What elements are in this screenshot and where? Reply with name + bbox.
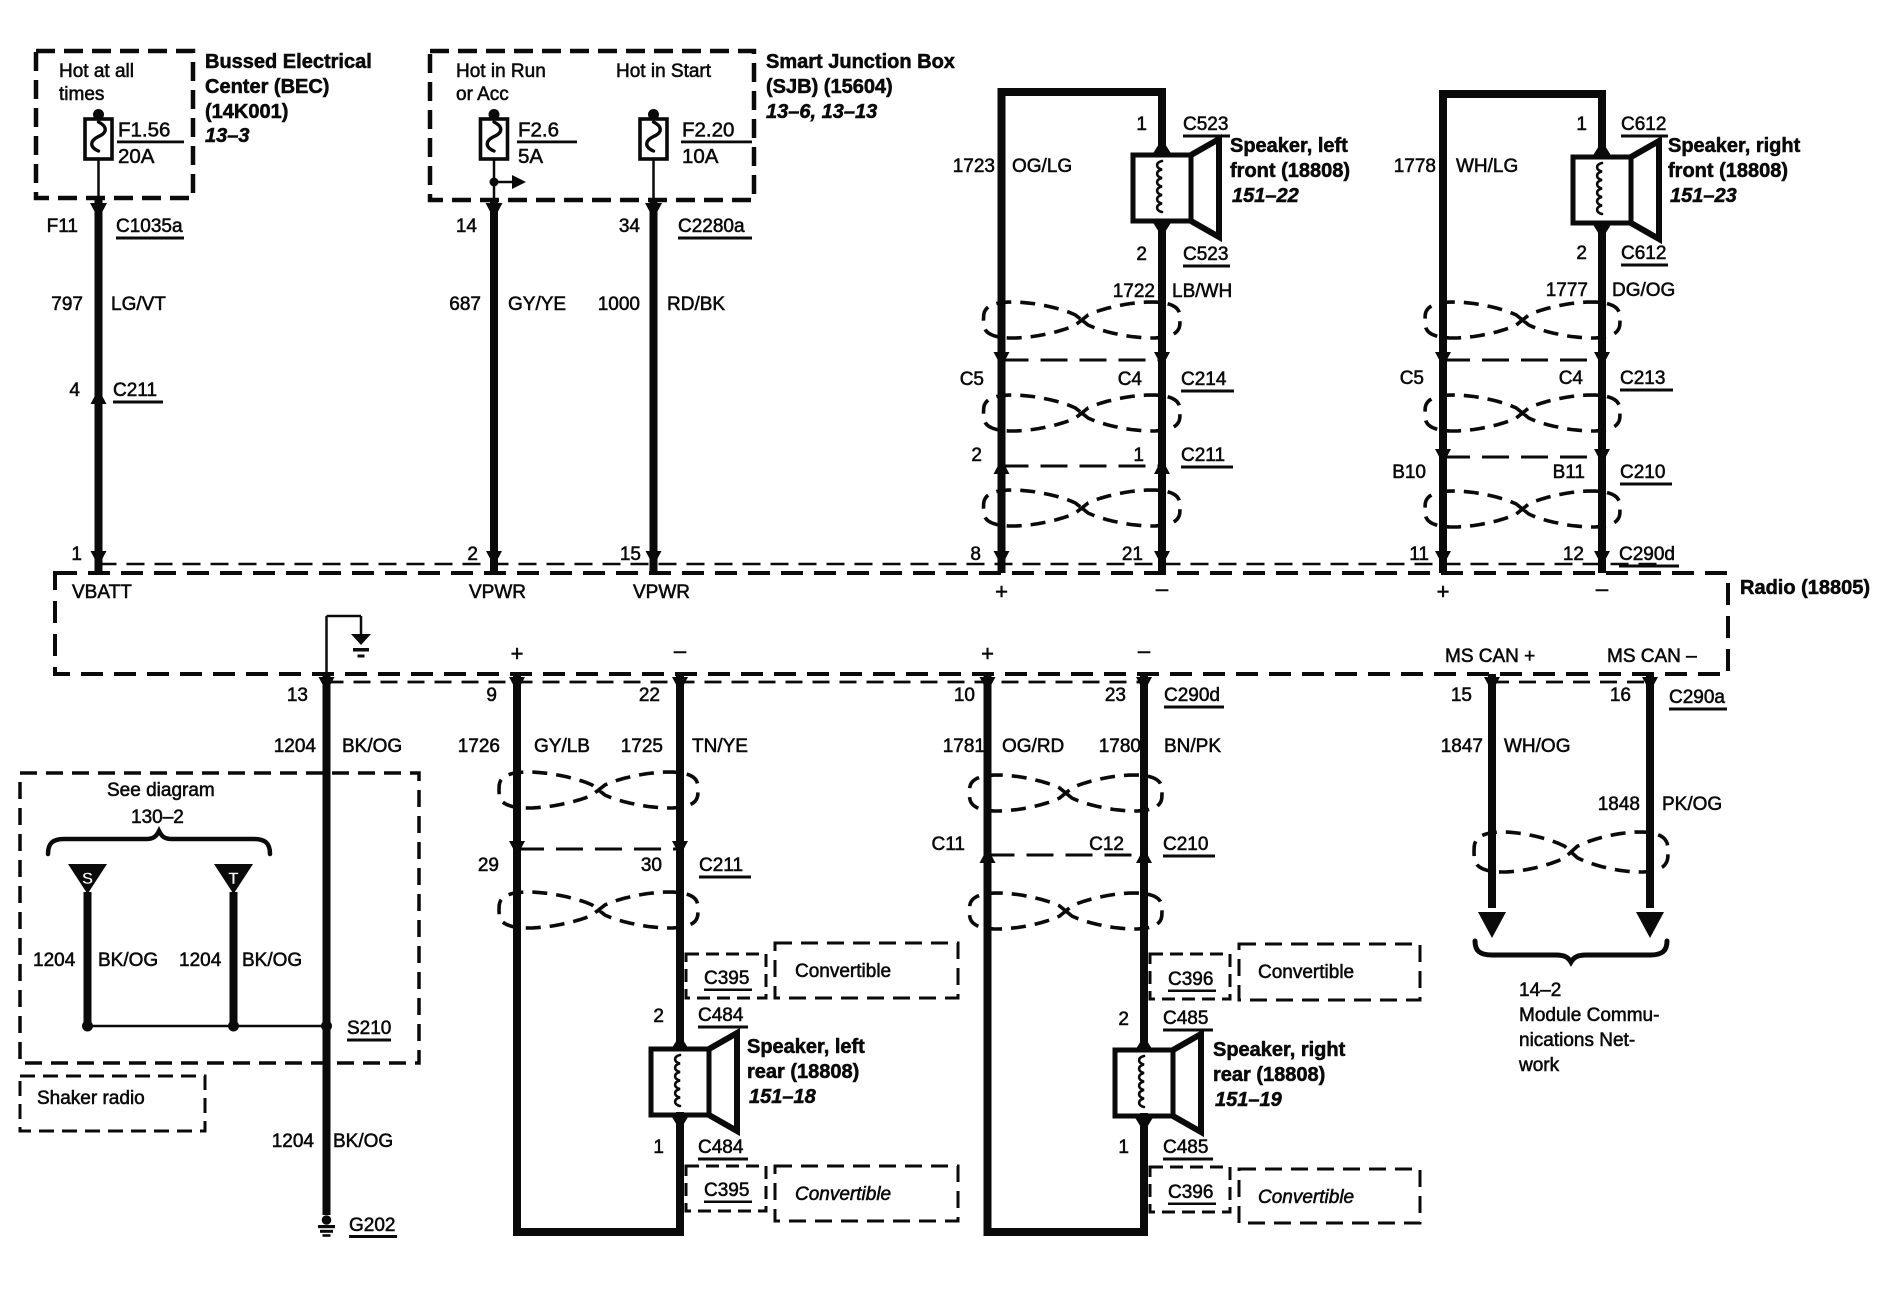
svg-text:VBATT: VBATT (72, 582, 132, 603)
svg-text:C5: C5 (1400, 368, 1424, 389)
svg-text:Convertible: Convertible (1258, 1187, 1354, 1208)
svg-text:TN/YE: TN/YE (692, 736, 748, 757)
svg-text:5A: 5A (518, 145, 543, 168)
svg-text:F11: F11 (47, 216, 78, 237)
svg-text:1204: 1204 (272, 1131, 315, 1152)
svg-text:–: – (1596, 576, 1609, 601)
svg-text:(14K001): (14K001) (205, 101, 288, 123)
svg-text:2: 2 (1136, 244, 1147, 265)
svg-text:20A: 20A (118, 145, 155, 168)
svg-text:C2280a: C2280a (678, 216, 745, 237)
svg-text:C485: C485 (1163, 1137, 1208, 1158)
svg-text:G202: G202 (349, 1215, 395, 1236)
svg-text:1: 1 (1118, 1137, 1129, 1158)
svg-text:1848: 1848 (1598, 794, 1640, 815)
svg-text:16: 16 (1610, 685, 1631, 706)
svg-text:1722: 1722 (1113, 281, 1155, 302)
svg-text:1777: 1777 (1546, 280, 1588, 301)
svg-text:–: – (1156, 576, 1169, 601)
svg-text:23: 23 (1105, 685, 1126, 706)
svg-text:12: 12 (1563, 544, 1584, 565)
svg-text:C290d: C290d (1164, 685, 1220, 706)
svg-text:151–23: 151–23 (1670, 185, 1737, 207)
svg-text:B10: B10 (1392, 462, 1426, 483)
svg-text:Hot at all: Hot at all (59, 61, 134, 82)
svg-text:2: 2 (467, 544, 478, 565)
svg-text:30: 30 (641, 855, 662, 876)
svg-text:front (18808): front (18808) (1230, 160, 1350, 182)
svg-text:1204: 1204 (179, 950, 222, 971)
svg-text:C12: C12 (1089, 834, 1124, 855)
svg-text:+: + (981, 641, 994, 666)
svg-text:MS CAN –: MS CAN – (1607, 646, 1697, 667)
svg-text:(SJB) (15604): (SJB) (15604) (766, 76, 893, 98)
svg-text:Smart Junction Box: Smart Junction Box (766, 51, 955, 73)
svg-text:21: 21 (1122, 544, 1143, 565)
svg-text:1781: 1781 (943, 736, 985, 757)
svg-text:or Acc: or Acc (456, 84, 509, 105)
svg-text:F2.6: F2.6 (518, 119, 559, 142)
svg-text:34: 34 (619, 216, 641, 237)
svg-text:See diagram: See diagram (107, 780, 215, 801)
svg-text:C5: C5 (960, 369, 984, 390)
svg-text:Convertible: Convertible (1258, 962, 1354, 983)
svg-text:1000: 1000 (598, 294, 640, 315)
svg-text:C213: C213 (1620, 368, 1665, 389)
svg-text:C612: C612 (1621, 114, 1666, 135)
svg-text:LG/VT: LG/VT (111, 294, 166, 315)
svg-text:C484: C484 (698, 1005, 744, 1026)
svg-text:GY/YE: GY/YE (508, 294, 566, 315)
svg-text:BK/OG: BK/OG (98, 950, 158, 971)
svg-text:Bussed Electrical: Bussed Electrical (205, 51, 372, 73)
svg-text:1: 1 (71, 544, 82, 565)
svg-text:1204: 1204 (274, 736, 317, 757)
svg-text:Speaker, left: Speaker, left (1230, 135, 1348, 157)
svg-text:C612: C612 (1621, 243, 1666, 264)
svg-text:C290d: C290d (1619, 544, 1675, 565)
svg-text:687: 687 (449, 294, 481, 315)
svg-text:797: 797 (51, 294, 83, 315)
svg-text:C484: C484 (698, 1137, 744, 1158)
svg-text:WH/LG: WH/LG (1456, 156, 1518, 177)
svg-text:C485: C485 (1163, 1008, 1208, 1029)
svg-text:C211: C211 (699, 855, 743, 876)
svg-text:151–19: 151–19 (1215, 1089, 1283, 1111)
svg-text:DG/OG: DG/OG (1612, 280, 1675, 301)
svg-text:C523: C523 (1183, 114, 1228, 135)
svg-text:Speaker, left: Speaker, left (747, 1036, 865, 1058)
svg-text:10: 10 (954, 685, 975, 706)
svg-text:C4: C4 (1118, 369, 1143, 390)
svg-text:S: S (82, 869, 93, 888)
svg-text:Speaker, right: Speaker, right (1213, 1039, 1346, 1061)
svg-text:VPWR: VPWR (633, 582, 690, 603)
svg-text:11: 11 (1409, 544, 1429, 565)
svg-text:C210: C210 (1163, 834, 1208, 855)
svg-text:LB/WH: LB/WH (1172, 281, 1232, 302)
svg-text:C211: C211 (1181, 445, 1225, 466)
svg-text:8: 8 (970, 544, 981, 565)
svg-text:1: 1 (1576, 114, 1587, 135)
svg-text:B11: B11 (1553, 462, 1585, 483)
svg-text:Radio (18805): Radio (18805) (1740, 577, 1870, 599)
svg-text:+: + (1437, 579, 1450, 604)
svg-text:times: times (59, 84, 104, 105)
svg-text:14–2: 14–2 (1519, 980, 1561, 1001)
svg-text:C396: C396 (1168, 1182, 1213, 1203)
svg-text:130–2: 130–2 (131, 807, 184, 828)
svg-text:Center (BEC): Center (BEC) (205, 76, 329, 98)
svg-text:2: 2 (1576, 243, 1587, 264)
svg-text:C211: C211 (113, 380, 157, 401)
svg-text:1780: 1780 (1099, 736, 1141, 757)
svg-text:22: 22 (639, 685, 660, 706)
svg-text:C396: C396 (1168, 969, 1213, 990)
svg-text:C395: C395 (704, 1180, 749, 1201)
svg-text:RD/BK: RD/BK (667, 294, 725, 315)
svg-text:1204: 1204 (33, 950, 76, 971)
svg-text:Shaker radio: Shaker radio (37, 1088, 145, 1109)
svg-text:rear (18808): rear (18808) (747, 1061, 859, 1083)
svg-text:Convertible: Convertible (795, 961, 891, 982)
svg-text:9: 9 (486, 685, 497, 706)
svg-text:2: 2 (653, 1006, 664, 1027)
svg-text:151–18: 151–18 (749, 1086, 817, 1108)
svg-text:OG/LG: OG/LG (1012, 156, 1072, 177)
svg-text:–: – (1138, 638, 1151, 663)
svg-text:13–6, 13–13: 13–6, 13–13 (766, 101, 877, 123)
svg-text:BK/OG: BK/OG (242, 950, 302, 971)
svg-text:1847: 1847 (1441, 736, 1483, 757)
svg-text:Module Commu-: Module Commu- (1519, 1005, 1659, 1026)
svg-text:10A: 10A (682, 145, 719, 168)
svg-text:MS CAN +: MS CAN + (1445, 646, 1535, 667)
svg-text:1: 1 (1136, 114, 1147, 135)
svg-text:29: 29 (478, 855, 499, 876)
svg-text:1725: 1725 (621, 736, 663, 757)
svg-text:2: 2 (971, 445, 982, 466)
svg-text:Speaker, right: Speaker, right (1668, 135, 1801, 157)
svg-text:F2.20: F2.20 (682, 119, 734, 142)
svg-text:Convertible: Convertible (795, 1184, 891, 1205)
svg-text:C214: C214 (1181, 369, 1227, 390)
svg-text:T: T (228, 869, 239, 888)
svg-text:work: work (1518, 1055, 1560, 1076)
svg-text:Hot in Start: Hot in Start (616, 61, 712, 82)
svg-text:C523: C523 (1183, 244, 1228, 265)
svg-text:1723: 1723 (953, 156, 995, 177)
svg-text:VPWR: VPWR (469, 582, 526, 603)
svg-text:OG/RD: OG/RD (1002, 736, 1064, 757)
svg-text:+: + (995, 579, 1008, 604)
svg-text:C11: C11 (932, 834, 965, 855)
svg-text:14: 14 (456, 216, 478, 237)
svg-text:1: 1 (653, 1137, 664, 1158)
svg-text:4: 4 (69, 380, 80, 401)
svg-text:GY/LB: GY/LB (534, 736, 590, 757)
svg-text:BK/OG: BK/OG (342, 736, 402, 757)
svg-text:1778: 1778 (1394, 156, 1436, 177)
svg-text:2: 2 (1118, 1009, 1129, 1030)
svg-text:13: 13 (287, 685, 308, 706)
svg-text:1: 1 (1133, 445, 1144, 466)
svg-text:front (18808): front (18808) (1668, 160, 1788, 182)
svg-text:F1.56: F1.56 (118, 119, 170, 142)
svg-text:Hot in Run: Hot in Run (456, 61, 546, 82)
svg-text:S210: S210 (347, 1018, 391, 1039)
svg-text:C395: C395 (704, 968, 749, 989)
svg-text:rear (18808): rear (18808) (1213, 1064, 1325, 1086)
svg-text:WH/OG: WH/OG (1504, 736, 1571, 757)
svg-text:C1035a: C1035a (116, 216, 183, 237)
svg-text:15: 15 (1451, 685, 1472, 706)
svg-text:+: + (511, 641, 524, 666)
svg-text:BN/PK: BN/PK (1164, 736, 1221, 757)
svg-text:1726: 1726 (458, 736, 500, 757)
svg-text:13–3: 13–3 (205, 125, 250, 147)
svg-text:15: 15 (620, 544, 641, 565)
svg-text:–: – (674, 638, 687, 663)
svg-text:151–22: 151–22 (1232, 185, 1299, 207)
svg-text:nications Net-: nications Net- (1519, 1030, 1635, 1051)
svg-text:C4: C4 (1559, 368, 1584, 389)
svg-text:C210: C210 (1620, 462, 1665, 483)
svg-text:BK/OG: BK/OG (333, 1131, 393, 1152)
svg-text:PK/OG: PK/OG (1662, 794, 1722, 815)
svg-text:C290a: C290a (1669, 687, 1725, 708)
